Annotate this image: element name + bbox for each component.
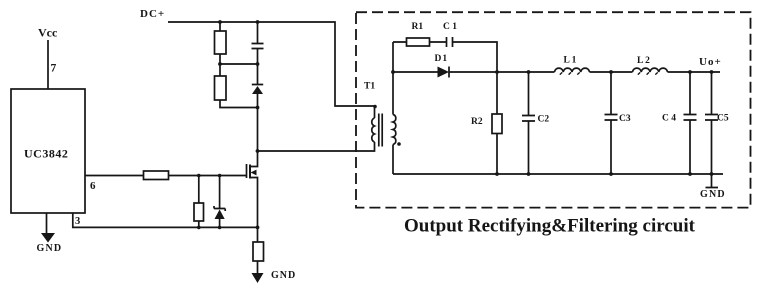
- svg-text:T1: T1: [364, 82, 375, 92]
- svg-text:DC+: DC+: [140, 8, 165, 20]
- svg-text:GND: GND: [271, 270, 296, 281]
- svg-text:Vcc: Vcc: [38, 26, 58, 40]
- svg-text:L 2: L 2: [637, 56, 650, 66]
- svg-text:3: 3: [75, 216, 80, 227]
- svg-text:UC3842: UC3842: [24, 147, 68, 161]
- svg-text:Output Rectifying&Filtering ci: Output Rectifying&Filtering circuit: [404, 216, 696, 237]
- svg-text:Uo+: Uo+: [699, 56, 722, 68]
- svg-text:D1: D1: [435, 54, 449, 64]
- svg-text:6: 6: [90, 180, 96, 192]
- svg-text:R2: R2: [471, 117, 483, 127]
- svg-text:C2: C2: [538, 115, 550, 125]
- svg-text:C 4: C 4: [662, 114, 676, 124]
- svg-text:L 1: L 1: [564, 56, 577, 66]
- svg-text:C 1: C 1: [443, 22, 457, 32]
- svg-text:GND: GND: [37, 243, 63, 254]
- svg-text:C5: C5: [717, 114, 729, 124]
- svg-text:7: 7: [51, 63, 57, 75]
- svg-text:R1: R1: [412, 22, 424, 32]
- svg-text:C3: C3: [619, 114, 631, 124]
- svg-text:GND: GND: [700, 189, 726, 200]
